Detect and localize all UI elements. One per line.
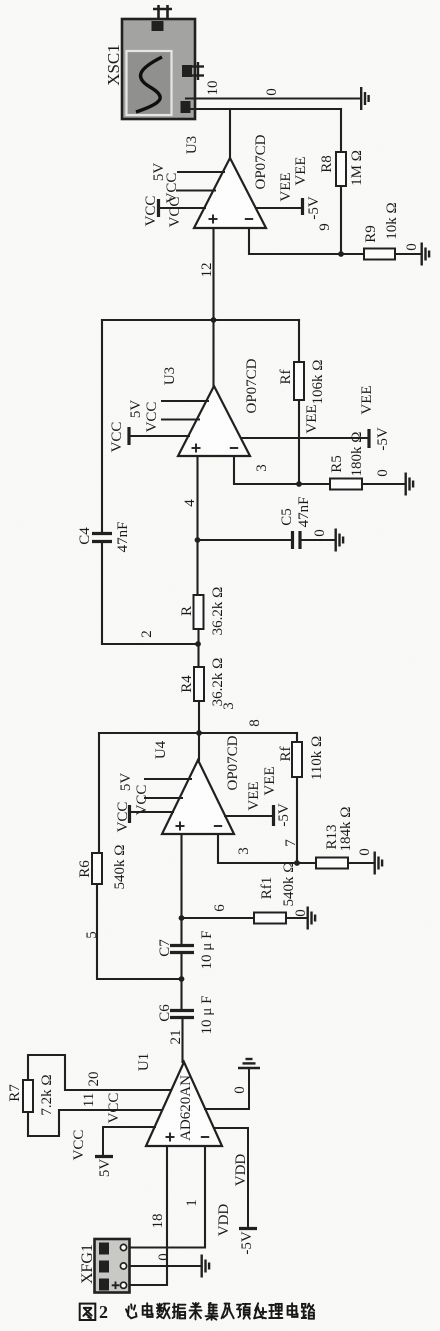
wire net 10 to R8 [340, 109, 342, 152]
op-amp U3 (stage 2) [178, 386, 250, 456]
wire node 6 to Rf1 [182, 917, 255, 919]
U1 REF pin to ground [205, 1069, 249, 1109]
capacitor C4 [92, 534, 112, 542]
resistor Rf (110k) [292, 742, 302, 777]
wire U3b noninverting input to node 4 [196, 456, 198, 540]
wire U4 inverting input to node 7 [218, 834, 316, 863]
resistor Rf (106k) [294, 362, 304, 400]
wire U3b inverting input to node 3 [234, 456, 330, 484]
U3b pin 5V stub [162, 400, 208, 402]
wire R13 to ground [348, 862, 373, 864]
capacitor C5 [293, 531, 301, 549]
wire U3 inverting input to node 9 [249, 228, 341, 254]
VCC power symbol U4 [128, 805, 131, 823]
ground R9 [422, 243, 429, 266]
wire R9 to ground [395, 253, 420, 255]
node 9 junction [338, 251, 344, 257]
resistor R4 [194, 667, 204, 701]
wire R to node 2 [197, 629, 199, 667]
wire C6 to U1 output net 21 [181, 1018, 183, 1063]
U3b pin VCC stub [162, 419, 199, 421]
ground Rf1 [308, 907, 315, 930]
oscilloscope top terminal [152, 5, 173, 31]
VEE power symbol U4 [225, 815, 272, 817]
wire Rf to node 7 [296, 777, 298, 863]
node 5 junction [179, 976, 185, 982]
wire scope input [186, 108, 341, 110]
ground R13 [375, 852, 382, 875]
resistor R13 [316, 858, 348, 869]
resistor R7 [23, 1080, 33, 1112]
wire node 4 to R [196, 540, 198, 595]
wire U4 noninverting input down [180, 834, 182, 945]
VCC power symbol U1 [103, 1126, 155, 1128]
function generator XFG1 [95, 1239, 130, 1293]
VEE power symbol stage2 [241, 437, 368, 439]
resistor R5 [330, 479, 362, 490]
oscilloscope XSC1 body [122, 19, 195, 119]
node 7 junction [294, 860, 300, 866]
wire node 9 to R9 [341, 253, 364, 255]
ground C5 [336, 529, 343, 552]
node 6 junction [179, 915, 185, 921]
resistor Rf1 [254, 913, 286, 924]
U4 pin VCC stub [145, 797, 182, 799]
wire op-amp U3 output to scope [229, 109, 231, 159]
capacitor C6 [170, 1011, 194, 1018]
wire R5 to ground [362, 483, 404, 485]
wire feedback rail stage2 [102, 319, 299, 321]
wire node 4 to C5 [198, 539, 291, 541]
ground scope [361, 87, 368, 110]
wire Rf to node 3 [298, 400, 300, 484]
wire R4 to U4 output node [198, 701, 200, 760]
wire C4 to node 2 [102, 542, 197, 645]
oscilloscope ground terminal [181, 101, 191, 113]
oscilloscope screen with waveform [127, 51, 172, 115]
resistor R6 [92, 853, 102, 884]
ground R5 [406, 473, 413, 496]
wire U1 + input net 18 [126, 1146, 167, 1285]
wire R8 to node 9 [340, 186, 342, 254]
node 4 junction [195, 537, 201, 543]
VCC power symbol stage2 [127, 427, 130, 445]
wire R7 bottom to pin 11 [28, 1110, 162, 1136]
node 3 junction [296, 481, 302, 487]
op-amp U4 [162, 760, 234, 834]
U3 pin 5V stub [178, 171, 224, 173]
wire rail to Rf 110k [296, 733, 298, 742]
VEE power symbol for U3 [256, 207, 301, 209]
wire feedback rail U4 [99, 732, 297, 734]
wire net 12 (stage2 output to U3 +) [212, 228, 214, 387]
wire U1 - input net 1 [126, 1146, 205, 1248]
capacitor C7 [170, 946, 194, 953]
resistor R9 [364, 249, 395, 260]
wire C7 to node 5 [180, 953, 182, 1011]
resistor R [194, 595, 204, 629]
op-amp U3 (top stage) [194, 158, 266, 228]
wire C5 to ground [302, 539, 334, 541]
wire rail to Rf stage2 [298, 320, 300, 362]
U4 pin 5V stub [145, 778, 191, 780]
wire R6 to node 5 [97, 884, 182, 979]
ground XFG1 common [202, 1255, 209, 1278]
VCC power symbol for U3 [157, 199, 160, 217]
wire R7 top to pin 20 [28, 1055, 171, 1090]
wire scope ground to net 0 [186, 97, 359, 99]
resistor R8 [336, 152, 346, 186]
ground U1 ref [238, 1059, 260, 1068]
caption: figure 2 ECG data acquisition and preprocessing circuit [80, 1304, 96, 1320]
U3 pin VCC stub [177, 190, 215, 192]
op-amp U1 AD620AN [146, 1062, 222, 1146]
wire XFG1 common to ground [126, 1265, 200, 1267]
wire Rf1 to ground [286, 917, 306, 919]
wire rail to R6 [98, 733, 100, 853]
oscilloscope channel A terminal [182, 62, 204, 80]
wire rail to C4 [101, 320, 103, 531]
node 2 junction [195, 641, 201, 647]
U1 VDD supply wire [214, 1128, 248, 1227]
